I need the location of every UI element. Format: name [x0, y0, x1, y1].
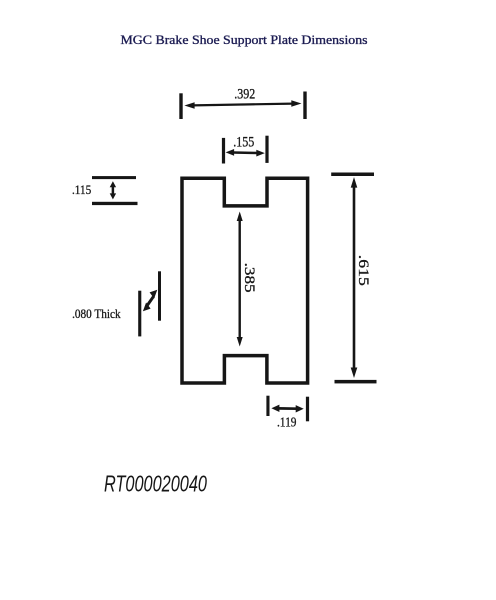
svg-text:.615: .615 [355, 255, 371, 286]
svg-text:.392: .392 [234, 87, 255, 103]
svg-text:.119: .119 [277, 416, 297, 431]
svg-text:MGC Brake Shoe Support Plate D: MGC Brake Shoe Support Plate Dimensions [121, 32, 368, 47]
svg-text:.385: .385 [241, 263, 257, 293]
svg-text:.115: .115 [72, 182, 91, 197]
svg-text:.155: .155 [233, 134, 254, 150]
svg-text:RT000020040: RT000020040 [104, 471, 207, 497]
svg-text:.080 Thick: .080 Thick [72, 307, 121, 321]
